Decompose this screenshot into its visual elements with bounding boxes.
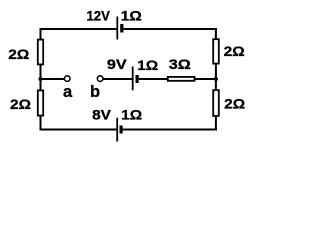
resistor 3ohm horizontal [168, 77, 195, 81]
svg-text:1Ω: 1Ω [137, 57, 158, 73]
battery 9V short plate [136, 75, 139, 83]
svg-text:1Ω: 1Ω [121, 8, 142, 24]
terminal a open circle [64, 76, 70, 82]
svg-text:3Ω: 3Ω [169, 56, 191, 72]
battery 8V short plate [119, 126, 122, 134]
wire left vertical branch [40, 28, 42, 131]
svg-text:2Ω: 2Ω [8, 46, 29, 62]
svg-text:8V: 8V [92, 107, 112, 123]
wire resistor 3ohm to right junction [195, 78, 216, 80]
battery 9V long plate [132, 67, 134, 91]
terminal b open circle [97, 76, 103, 82]
wire terminal b to 9V battery [103, 78, 132, 80]
battery 12V short plate [120, 24, 123, 33]
resistor 2ohm right-top [213, 39, 219, 63]
resistor 2ohm left-top [38, 40, 43, 65]
battery 8V long plate [116, 118, 118, 142]
junction node right middle [214, 77, 218, 81]
wire 9V battery to resistor 3ohm [139, 78, 168, 80]
resistor 2ohm right-bottom [213, 90, 219, 116]
wire 12V battery to top-right corner [123, 28, 216, 30]
svg-text:2Ω: 2Ω [10, 96, 31, 112]
wire 8V battery to bottom-right corner [123, 129, 217, 131]
wire right vertical branch [215, 28, 217, 131]
battery 12V long plate [116, 17, 118, 40]
svg-text:2Ω: 2Ω [224, 43, 245, 59]
wire top-left to 12V battery [40, 28, 117, 30]
resistor 2ohm left-bottom [38, 90, 43, 115]
svg-text:1Ω: 1Ω [121, 107, 142, 123]
svg-text:a: a [63, 83, 73, 101]
svg-text:b: b [90, 83, 100, 101]
wire middle left junction to terminal a [41, 78, 65, 80]
svg-text:2Ω: 2Ω [224, 96, 245, 112]
junction node left middle [38, 77, 42, 81]
wire bottom-left to 8V battery [40, 129, 117, 131]
svg-text:9V: 9V [107, 56, 128, 72]
svg-text:12V: 12V [86, 7, 110, 23]
